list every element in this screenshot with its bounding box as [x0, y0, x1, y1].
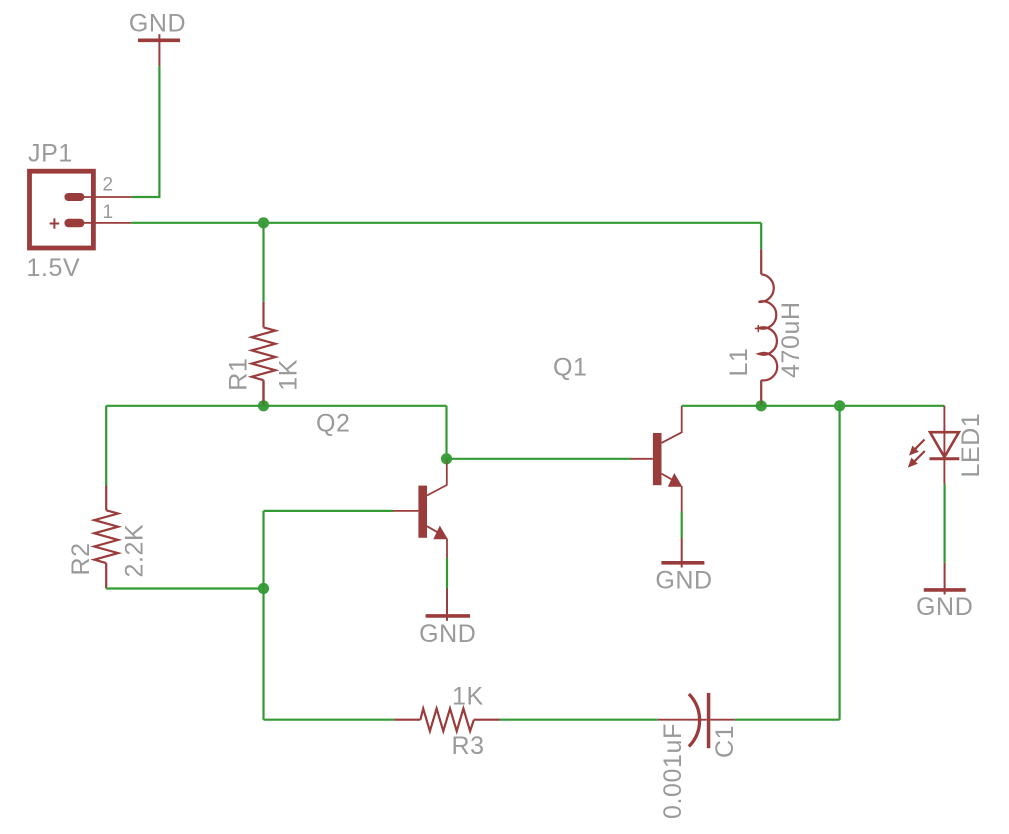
- wire: Q2 collector to Q1 base: [447, 458, 631, 460]
- svg-text:JP1: JP1: [28, 140, 73, 168]
- svg-text:1K: 1K: [275, 359, 303, 391]
- resistor R2: [94, 486, 118, 589]
- svg-text:470uH: 470uH: [777, 301, 805, 378]
- junction R1 bottom: [258, 400, 269, 411]
- wire: base node vertical: [262, 511, 264, 589]
- wire: down to R2: [105, 406, 107, 486]
- svg-text:1K: 1K: [452, 683, 484, 711]
- svg-text:GND: GND: [916, 593, 973, 621]
- wire: down to C1: [838, 406, 840, 720]
- svg-text:R3: R3: [452, 732, 485, 760]
- resistor R1: [252, 302, 276, 401]
- junction Q2 collector node: [441, 453, 452, 464]
- wire: top GND vertical: [158, 66, 160, 198]
- svg-text:1.5V: 1.5V: [27, 254, 81, 282]
- svg-text:1: 1: [103, 202, 114, 223]
- svg-text:LED1: LED1: [957, 413, 985, 478]
- ground symbol GND (top, battery negative): [138, 34, 180, 65]
- wire: LED cathode down: [943, 484, 945, 563]
- wire: bottom rail middle: [500, 719, 658, 721]
- ground symbol GND (Q2 emitter): [426, 589, 470, 621]
- wire: JP1 pin1 to L1 (VCC rail): [131, 222, 761, 224]
- wire: Q2 base horizontal: [264, 510, 394, 512]
- inductor L1: [755, 249, 777, 401]
- capacitor C1: [658, 693, 735, 748]
- wire: bottom rail right: [735, 719, 840, 721]
- wire: Q1 collector rail: [682, 405, 945, 407]
- svg-text:GND: GND: [655, 567, 712, 595]
- wire: junction down to bottom rail: [262, 589, 264, 720]
- svg-text:GND: GND: [419, 620, 476, 648]
- svg-text:Q1: Q1: [553, 354, 588, 382]
- wire: left rail y=405.8: [106, 405, 446, 407]
- connector JP1: [30, 171, 132, 248]
- svg-text:L1: L1: [725, 347, 753, 376]
- svg-text:2: 2: [103, 175, 114, 196]
- wire: Q1 emitter: [681, 512, 683, 539]
- wire: Q2 emitter: [446, 558, 448, 589]
- junction L1 bottom: [756, 400, 767, 411]
- svg-text:Q2: Q2: [316, 410, 351, 438]
- transistor Q2: [393, 459, 448, 558]
- ground symbol GND (LED): [924, 563, 966, 595]
- wire: R2 bottom to junction: [106, 587, 263, 589]
- svg-text:C1: C1: [711, 725, 739, 758]
- junction on VCC rail: [258, 217, 269, 228]
- wire: top GND to JP1 pin 2: [131, 196, 160, 198]
- resistor R3: [394, 709, 499, 732]
- svg-text:0.001uF: 0.001uF: [659, 723, 687, 819]
- svg-text:GND: GND: [129, 10, 186, 38]
- svg-text:R1: R1: [225, 358, 253, 391]
- svg-text:R2: R2: [67, 542, 95, 575]
- junction C1 top: [834, 400, 845, 411]
- transistor Q1: [631, 406, 683, 512]
- ground symbol GND (Q1 emitter): [661, 538, 704, 568]
- junction base node: [258, 583, 269, 594]
- svg-text:2.2K: 2.2K: [121, 524, 149, 578]
- wire: rail corner down to L1: [760, 223, 762, 250]
- wire: bottom rail left: [264, 719, 395, 721]
- wire: junction down to R1: [262, 223, 264, 302]
- wire: down to Q2 collector: [445, 406, 447, 455]
- LED LED1: [908, 406, 960, 484]
